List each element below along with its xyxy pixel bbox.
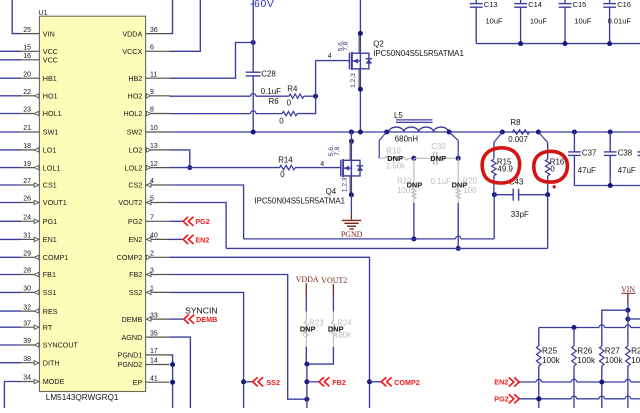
transistor Q2 symbol [349,53,351,70]
junction SS2 port [241,379,246,384]
port PG2 [183,217,188,226]
svg-text:21: 21 [23,125,31,132]
svg-text:COMP2: COMP2 [394,378,420,387]
Q4 drain wire [350,141,352,160]
junction COMP2 port [367,379,372,384]
svg-text:0: 0 [287,99,292,108]
wire PG2 bottom net [519,398,571,400]
svg-text:1,2,3: 1,2,3 [341,177,348,192]
svg-text:R6: R6 [269,97,280,106]
svg-text:100k: 100k [542,356,561,365]
wire R25 top [538,328,540,347]
wire FB2 net vertical [306,364,308,408]
svg-text:33: 33 [150,312,158,319]
capacitor C28 [246,71,261,73]
junction Q2 source bus [358,130,363,135]
pin 7 PG2 (right stub) [146,220,170,222]
svg-text:24: 24 [23,215,31,222]
capacitor C30 (DNP) [414,157,434,159]
wire LO2 pin 13 jog down [170,150,190,168]
svg-text:47uF: 47uF [578,166,596,175]
wire R20 to VOUT2 net [457,203,459,248]
wire R25/R26 top rail [539,327,599,329]
resistor R6 [282,111,297,115]
svg-text:5: 5 [150,196,154,203]
pin 24 PG1 (left stub) [21,220,39,222]
pin 34 MODE (left stub) [21,381,39,383]
wire HOL2 pin 8 to R6 [170,113,251,115]
wire EN2 pin 40 stub [170,238,184,240]
svg-text:DEMB: DEMB [122,315,143,324]
pin 4 CS2 (right stub) [146,184,170,186]
svg-text:33pF: 33pF [511,210,529,219]
pin 15 VCC (left stub) [21,50,39,52]
svg-text:VOUT2: VOUT2 [321,276,347,285]
pin 9 HO2 (right stub) [146,95,170,97]
pin 40 EN2 (right stub) [146,238,170,240]
pin 12 LOL2 (right stub) [146,167,170,169]
svg-text:LOL2: LOL2 [125,163,143,172]
svg-text:VDDA: VDDA [122,29,142,38]
resistor R26 [572,346,577,366]
svg-text:1: 1 [150,286,154,293]
svg-text:HO1: HO1 [43,92,58,101]
wire COMP2 pin 2 net [170,257,370,408]
svg-text:PG2: PG2 [195,217,209,226]
svg-text:FB2: FB2 [332,378,346,387]
capacitor C16 [609,0,611,3]
pin 28 FB1 (left stub) [21,274,39,276]
svg-text:27: 27 [23,178,31,185]
svg-text:RES: RES [43,307,58,316]
svg-text:100: 100 [397,186,411,195]
svg-text:SS2: SS2 [266,378,280,387]
wire FB2 pin 3 net [170,275,307,400]
svg-text:100: 100 [463,186,477,195]
transistor Q4 symbol [340,160,342,177]
junction EN2/R27 [599,380,604,385]
svg-text:8: 8 [150,107,154,114]
svg-text:16: 16 [23,53,31,60]
svg-text:C16: C16 [617,0,631,9]
svg-text:C37: C37 [582,149,596,158]
port FB2 [307,381,319,383]
resistor R8 (inline shunt) [512,130,529,134]
svg-text:VCC: VCC [43,56,58,65]
svg-text:32: 32 [23,304,31,311]
wire VOUT2 net to R16 node [547,195,549,249]
resistor R25 [537,346,542,366]
svg-text:PGND1: PGND1 [118,351,143,360]
pin 20 HB1 (left stub) [21,77,39,79]
svg-text:31: 31 [23,233,31,240]
svg-text:13: 13 [150,143,158,150]
pin 37 RT (left stub) [21,326,39,328]
svg-text:4: 4 [320,161,324,168]
wire EN2 bottom net [519,381,536,383]
svg-text:1,2,3: 1,2,3 [350,73,357,88]
wire HO2 pin 9 to R4 [170,95,251,97]
junction C38 bottom [608,183,613,188]
svg-text:L5: L5 [394,111,403,120]
svg-text:40: 40 [150,233,158,240]
capacitor C13 [475,0,477,3]
pin 10 SW2 (right stub) [146,131,170,133]
svg-text:4: 4 [328,53,332,60]
svg-text:38: 38 [23,356,31,363]
svg-text:CS1: CS1 [43,181,57,190]
Q4 drain grey stub [349,142,351,160]
svg-text:9: 9 [150,89,154,96]
junction LO2/LOL2 [187,165,192,170]
junction R20/VOUT2 net [456,246,461,251]
wire left pin 15 VCC to left edge [0,50,21,52]
svg-text:LO1: LO1 [43,146,57,155]
svg-text:SW2: SW2 [127,128,143,137]
wire DEMB pin 33 stub [170,318,185,320]
junction C28/SW2 [251,130,256,135]
wire left pin 20 HB1 to left edge [0,77,21,79]
wire left pin 38 DITH to left edge [0,362,21,364]
svg-text:DITH: DITH [43,358,60,367]
svg-text:IPC50N04S5L5R5ATMA1: IPC50N04S5L5R5ATMA1 [254,197,345,206]
svg-text:0: 0 [303,330,308,339]
Q2 drain grey pin stub [358,33,360,52]
junction FB2 port [304,379,309,384]
resistor R20 (DNP) [457,158,459,188]
Q2 source grey pin stub [358,69,360,89]
junction C38 top [608,130,613,135]
svg-text:HB2: HB2 [128,74,142,83]
junction Q4 drain b [349,139,354,144]
svg-text:VCCX: VCCX [122,47,142,56]
svg-text:100k: 100k [334,330,351,339]
svg-text:IPC50N04S5L5R5ATMA1: IPC50N04S5L5R5ATMA1 [373,49,464,58]
wire left pin 37 RT to left edge [0,326,21,328]
wire VIN pin 25 to top edge [12,0,21,34]
pin 23 HOL1 (left stub) [21,113,39,115]
svg-text:C14: C14 [528,0,542,9]
wire LOL2 pin 12 to R14 [170,167,280,169]
wire AGND pin 35 down [170,337,191,408]
svg-text:0.01uF: 0.01uF [608,17,632,26]
svg-text:C28: C28 [261,70,276,79]
svg-text:35: 35 [150,330,158,337]
junction R23/R24 [304,362,309,367]
pin 38 DITH (left stub) [21,362,39,364]
junction L5 right [447,130,452,135]
junction PGND2 [170,362,175,367]
port COMP2 [370,381,382,383]
pin 1 SS2 (right stub) [146,291,170,293]
svg-text:20: 20 [23,71,31,78]
pin 33 DEMB (right stub) [146,318,170,320]
svg-text:11: 11 [150,71,157,78]
svg-text:Q4: Q4 [326,187,337,196]
svg-text:10uF: 10uF [530,17,548,26]
svg-text:19: 19 [23,161,31,168]
svg-text:0: 0 [550,165,555,174]
junction Q4 drain top a [349,130,354,135]
pin 8 HOL2 (right stub) [146,113,170,115]
svg-text:VIN: VIN [43,29,55,38]
svg-text:DNP: DNP [430,154,446,163]
pin 2 COMP2 (right stub) [146,256,170,258]
wire left pin 30 SS1 to left edge [0,291,21,293]
svg-text:R4: R4 [287,84,298,93]
wire left pin 31 EN1 to left edge [0,238,21,240]
wire SW2 power stage bus [170,131,640,133]
VOUT2 stem [332,284,334,296]
wire CS2 pin 4 net [170,185,244,239]
wire R25 bottom [538,366,540,408]
svg-text:FB2: FB2 [129,270,142,279]
svg-text:29: 29 [23,251,31,258]
svg-text:10uF: 10uF [574,17,592,26]
red dot mark [553,185,556,188]
VDDA stem [305,283,307,295]
junction Q4 source [349,192,354,197]
wire HB2 pin 11 to -60V rail [170,43,251,79]
pin 27 CS1 (left stub) [21,184,39,186]
svg-text:PG2: PG2 [128,217,142,226]
svg-text:LO2: LO2 [129,146,143,155]
svg-text:7: 7 [150,215,154,222]
svg-text:26: 26 [23,196,31,203]
svg-text:R14: R14 [278,156,293,165]
resistor R24 (DNP) [332,312,334,322]
wire MODE pin 34 down to bottom edge [4,382,21,409]
svg-text:R25: R25 [542,347,557,356]
pin 18 LO1 (left stub) [21,149,39,151]
junction R16/C43 [545,192,550,197]
pin 3 FB2 (right stub) [146,274,170,276]
Q2 drain wire to top [359,0,361,53]
junction L5 left [384,130,389,135]
junction Q2 drain [358,31,363,36]
wire left pin 24 PG1 to left edge [0,220,21,222]
wire R19 to CS2 net [413,203,415,239]
wire R23 to FB2 node [305,347,307,364]
wire -60V vertical rail [252,0,254,72]
wire left pin 32 RES to left edge [0,310,21,312]
svg-text:34: 34 [23,375,31,382]
wire PG2 pin 7 stub [170,220,184,222]
svg-text:100k: 100k [605,356,624,365]
svg-text:PG2: PG2 [494,394,508,403]
resistor R16 [538,132,547,143]
svg-text:LOL1: LOL1 [43,163,61,172]
svg-text:RT: RT [43,323,53,332]
svg-text:0.007: 0.007 [508,135,528,144]
resistor R23 (DNP) [305,312,307,322]
svg-text:C13: C13 [484,0,498,9]
junction HB2 / -60V rail [251,40,256,45]
pin 29 COMP1 (left stub) [21,256,39,258]
svg-text:22: 22 [23,89,31,96]
junction C15 bus [563,41,568,46]
svg-text:25: 25 [23,27,31,34]
svg-text:CS2: CS2 [128,181,142,190]
wire left pin 26 VOUT1 to left edge [0,202,21,204]
svg-text:36: 36 [150,27,158,34]
svg-text:10: 10 [150,125,158,132]
junction FB2 net join [304,397,309,402]
wire R24 to FB2 node [307,347,334,364]
svg-text:LM5143QRWGRQ1: LM5143QRWGRQ1 [46,393,119,402]
wire C37/C38 bottom bus [574,185,640,187]
wire VOUT2 pin 5 net [170,203,227,249]
resistor R15 [494,132,502,143]
svg-text:2: 2 [150,251,154,258]
junction R19/CS2 net [411,236,416,241]
pin 25 VIN (left stub) [21,33,39,35]
wire left pin 18 LO1 to left edge [0,149,21,151]
ground PGND symbol [350,195,352,214]
wire R4 to gate junction [304,95,316,97]
pin 5 VOUT2 (right stub) [146,202,170,204]
svg-text:DEMB: DEMB [196,315,217,324]
pin 36 VDDA (right stub) [146,33,170,35]
svg-text:0.1uF: 0.1uF [261,87,281,96]
svg-text:41: 41 [150,375,158,382]
resistor R10 (DNP) [379,157,384,159]
svg-text:0: 0 [279,116,284,125]
svg-text:R28: R28 [631,347,640,356]
svg-text:VDDA: VDDA [296,275,319,284]
Q2 source wire to SW node [359,69,361,132]
svg-text:EN1: EN1 [43,235,57,244]
wire R6 to gate node vertical [297,61,316,114]
svg-text:15: 15 [23,45,31,52]
pin 16 VCC (left stub) [21,59,39,61]
junction C16 bus [607,41,612,46]
svg-text:C15: C15 [573,0,587,9]
svg-text:HB1: HB1 [43,74,57,83]
wire left pin 39 SYNCOUT to left edge [0,344,21,346]
svg-text:C30: C30 [431,142,446,151]
pin 22 HO1 (left stub) [21,95,39,97]
svg-text:6: 6 [150,45,154,52]
pin 30 SS1 (left stub) [21,291,39,293]
junction R10/C30/R19 [411,156,416,161]
wire L5 left to snubber [379,132,387,158]
wire left pin 28 FB1 to left edge [0,274,21,276]
svg-text:U1: U1 [38,8,47,17]
junction C37 top [572,130,577,135]
wire CS2 net horizontal [244,238,456,240]
junction VIN b [625,317,630,322]
wire left pin 19 LOL1 to left edge [0,167,21,169]
svg-text:R8: R8 [510,118,521,127]
svg-text:0.1uF: 0.1uF [431,177,451,186]
pin 17 PGND1 (right stub) [146,354,170,356]
svg-text:R26: R26 [577,347,592,356]
svg-text:49.9: 49.9 [498,165,514,174]
pin 32 RES (left stub) [21,310,39,312]
wire R14 to Q4 gate [295,167,341,169]
svg-text:AGND: AGND [122,333,143,342]
svg-text:23: 23 [23,107,31,114]
svg-text:COMP1: COMP1 [43,253,69,262]
port EN2 [183,235,188,244]
wire R27 feed rail [602,310,628,346]
port DEMB [184,315,189,324]
wire left pin 23 HOL1 to left edge [0,113,21,115]
wire left pin 29 COMP1 to left edge [0,256,21,258]
svg-text:17: 17 [150,348,158,355]
svg-text:HOL1: HOL1 [43,109,62,118]
svg-text:SW1: SW1 [43,128,59,137]
pin 26 VOUT1 (left stub) [21,202,39,204]
resistor R14 [280,165,296,169]
svg-text:7,8: 7,8 [334,146,341,155]
pin 11 HB2 (right stub) [146,77,170,79]
svg-text:680nH: 680nH [395,135,419,144]
wire SS2 pin 1 net [170,292,244,408]
svg-text:C38: C38 [618,149,633,158]
wire left pin 21 SW1 to left edge [0,131,21,133]
svg-text:37: 37 [23,320,31,327]
svg-text:47uF: 47uF [618,166,636,175]
svg-text:PGND: PGND [341,230,363,239]
VIN stem [627,293,629,303]
svg-text:0: 0 [280,170,285,179]
wire VOUT2 net horizontal [226,247,548,249]
svg-text:VIN: VIN [621,285,635,294]
wire VIN stem lower [627,310,629,346]
resistor R28 [626,346,631,366]
svg-text:10uF: 10uF [486,17,504,26]
svg-text:28: 28 [23,268,31,275]
wire PGND1 pin 17 down [170,355,173,408]
junction C30/R20 [456,156,461,161]
pin 6 VCCX (right stub) [146,50,170,52]
svg-text:HOL2: HOL2 [124,109,143,118]
capacitor C37 [573,132,575,152]
svg-text:14: 14 [150,358,158,365]
wire R28 bottom [627,366,629,408]
op-amp U1 controller IC body (LM5143QRWGRQ1) [39,16,145,391]
svg-text:1.50k: 1.50k [386,161,405,170]
svg-text:EN2: EN2 [128,235,142,244]
svg-text:4: 4 [150,178,154,185]
svg-text:EN2: EN2 [195,235,209,244]
wire left pin 27 CS1 to left edge [0,184,21,186]
svg-text:FB1: FB1 [43,270,56,279]
junction EP [170,380,175,385]
capacitor C43 [494,194,513,196]
svg-text:VOUT1: VOUT1 [43,198,67,207]
wire R26 bottom [573,366,575,408]
wire R27 bottom [601,366,603,408]
svg-text:Q2: Q2 [373,39,384,48]
junction VIN a [625,308,630,313]
wire left pin 22 HO1 to left edge [0,95,21,97]
red circle around R16 [534,151,568,182]
svg-text:EN2: EN2 [494,378,508,387]
wire CS2 net to R15 node [493,195,495,239]
Q4 source wire [350,176,352,195]
svg-text:30: 30 [23,286,31,293]
svg-text:R20: R20 [463,176,478,185]
svg-text:7,8: 7,8 [343,41,350,50]
svg-text:MODE: MODE [43,377,65,386]
port SS2 [244,381,253,383]
svg-text:12: 12 [150,161,158,168]
svg-text:VOUT2: VOUT2 [118,198,142,207]
pin 14 PGND2 (right stub) [146,364,170,366]
